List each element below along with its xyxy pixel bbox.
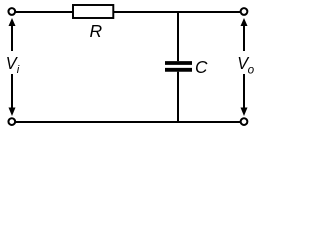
svg-text:R: R — [90, 21, 103, 41]
svg-text:o: o — [248, 63, 255, 76]
svg-text:C: C — [195, 57, 208, 77]
